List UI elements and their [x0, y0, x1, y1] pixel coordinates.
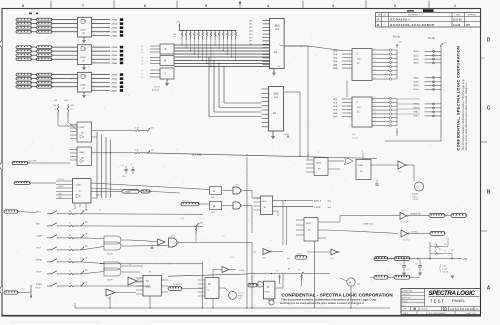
- svg-text:+MEA: +MEA: [111, 86, 117, 89]
- svg-text:Lo 12: Lo 12: [137, 279, 141, 281]
- svg-text:+MAA: +MAA: [111, 89, 117, 92]
- svg-text:MD2: MD2: [249, 27, 252, 29]
- svg-text:SPA e: SPA e: [414, 111, 419, 114]
- svg-text:36: 36: [439, 249, 441, 251]
- svg-text:and may not be used without th: and may not be used without the prior wr…: [465, 82, 468, 150]
- svg-text:+MAA: +MAA: [111, 34, 117, 37]
- svg-text:+MXA: +MXA: [111, 82, 117, 85]
- svg-text:12: 12: [93, 89, 95, 91]
- svg-text:C0: C0: [374, 49, 376, 51]
- svg-text:C5: C5: [374, 69, 376, 71]
- svg-text:FSCM NO.: FSCM NO.: [421, 308, 429, 310]
- svg-text:Gnd: Gnd: [284, 134, 287, 136]
- svg-text:PANEL: PANEL: [452, 299, 466, 303]
- svg-text:R4B: R4B: [71, 105, 74, 107]
- svg-text:x0: x0: [141, 46, 143, 48]
- svg-text:MGP: MGP: [371, 99, 375, 101]
- svg-text:C3: C3: [374, 109, 376, 111]
- svg-text:L2640: L2640: [76, 185, 83, 187]
- svg-text:REV: REV: [378, 14, 381, 16]
- svg-text:74S14: 74S14: [358, 165, 365, 167]
- svg-text:74...: 74...: [207, 290, 211, 292]
- svg-text:LS04: LS04: [398, 172, 402, 174]
- svg-text:x2: x2: [141, 63, 143, 65]
- svg-text:+MAA: +MAA: [111, 62, 117, 65]
- svg-text:RSTCLR: RSTCLR: [182, 200, 190, 202]
- svg-text:L 0 6 2 0 0 0 0 0 5: L 0 6 2 0 0 0 0 0 5: [450, 307, 474, 311]
- svg-text:+5: +5: [88, 39, 90, 41]
- svg-text:x0: x0: [141, 70, 143, 72]
- svg-text:MRLY: MRLY: [36, 212, 42, 214]
- svg-text:MXB e: MXB e: [414, 59, 420, 61]
- svg-text:MD7: MD7: [249, 44, 252, 46]
- svg-text:(42): (42): [253, 252, 256, 254]
- svg-text:124 LS14B: 124 LS14B: [400, 221, 408, 223]
- svg-text:D: D: [487, 38, 491, 44]
- svg-text:L2640: L2640: [80, 29, 86, 31]
- svg-text:STRIP: STRIP: [36, 272, 42, 274]
- svg-text:DESCRIPTION: DESCRIPTION: [408, 14, 418, 16]
- svg-text:2 1 4: 2 1 4: [402, 305, 406, 307]
- svg-text:RESET: RESET: [36, 260, 43, 262]
- svg-text:REV: REV: [476, 308, 479, 310]
- svg-text:LS04: LS04: [262, 257, 266, 259]
- svg-text:+WLA: +WLA: [111, 23, 117, 26]
- svg-text:4.7: 4.7: [407, 269, 409, 271]
- svg-text:5TRuE: 5TRuE: [35, 288, 41, 290]
- svg-text:+5: +5: [361, 151, 363, 153]
- svg-text:LS279: LS279: [107, 280, 114, 282]
- svg-text:Gnd: Gnd: [277, 66, 280, 68]
- svg-text:MOB e: MOB e: [414, 82, 420, 84]
- svg-text:WH: WH: [466, 24, 470, 27]
- svg-text:1 SCNF: 1 SCNF: [314, 207, 322, 209]
- svg-text:E C O # 0 0 2 —: E C O # 0 0 2 —: [391, 17, 411, 21]
- svg-text:MGB: MGB: [333, 116, 338, 118]
- svg-text:LS04: LS04: [330, 258, 334, 260]
- svg-text:MD0: MD0: [249, 20, 252, 22]
- svg-text:K1: K1: [198, 228, 200, 230]
- svg-text:C5: C5: [374, 116, 376, 118]
- svg-text:36: 36: [434, 251, 436, 253]
- svg-text:P6: P6: [451, 250, 453, 252]
- svg-text:x0: x0: [141, 57, 143, 59]
- svg-text:CHECKED: CHECKED: [402, 294, 411, 296]
- svg-text:C3: C3: [130, 164, 132, 166]
- svg-text:B: B: [377, 23, 379, 27]
- svg-text:.1: .1: [423, 269, 424, 271]
- svg-text:74S05: 74S05: [264, 292, 269, 294]
- svg-text:RSTA e: RSTA e: [414, 103, 420, 106]
- svg-text:RSTB e: RSTB e: [414, 108, 421, 110]
- svg-text:47µF: 47µF: [122, 176, 126, 178]
- svg-text:and may not be used without th: and may not be used without the prior wr…: [280, 301, 364, 305]
- svg-text:M: M: [349, 281, 351, 285]
- svg-text:C: C: [165, 73, 167, 76]
- svg-text:A RESETB: A RESETB: [411, 213, 421, 216]
- svg-text:L2640: L2640: [80, 57, 86, 59]
- svg-text:START: START: [238, 294, 243, 297]
- svg-text:(Cond34): (Cond34): [352, 138, 359, 140]
- svg-text:Ca: Ca: [400, 264, 402, 266]
- svg-text:A: A: [487, 286, 491, 292]
- svg-text:(xx): (xx): [287, 258, 290, 260]
- svg-text:x1: x1: [141, 60, 143, 62]
- svg-text:C4: C4: [374, 113, 376, 115]
- svg-text:2×4×8: 2×4×8: [154, 86, 161, 89]
- svg-text:MD6: MD6: [249, 41, 252, 43]
- svg-text:+MRA: +MRA: [111, 19, 117, 22]
- svg-text:+MEA: +MEA: [111, 31, 117, 34]
- svg-text:C4: C4: [374, 65, 376, 67]
- svg-text:Ca .1: Ca .1: [251, 277, 255, 279]
- svg-text:CYCLE: CYCLE: [238, 293, 245, 295]
- svg-text:28L6: 28L6: [274, 26, 280, 28]
- svg-text:CONFIDENTIAL, SPECTRA LOGIC C: CONFIDENTIAL, SPECTRA LOGIC CORPORATION: [456, 46, 461, 151]
- svg-text:C2: C2: [374, 57, 376, 59]
- svg-text:x2: x2: [141, 77, 143, 79]
- svg-text:BAR: BAR: [36, 223, 41, 226]
- svg-text:C7: C7: [374, 124, 376, 126]
- svg-text:BY: BY: [384, 14, 386, 16]
- svg-text:LS74: LS74: [316, 163, 322, 165]
- svg-text:L2640: L2640: [79, 127, 85, 129]
- svg-text:MSB e: MSB e: [414, 85, 420, 87]
- svg-text:+5V: +5V: [463, 259, 468, 261]
- svg-text:MD4: MD4: [249, 34, 252, 36]
- svg-text:SPB e: SPB e: [414, 116, 419, 118]
- svg-text:(pull up): (pull up): [152, 90, 160, 92]
- svg-text:L2640A: L2640A: [124, 191, 132, 194]
- svg-text:C: C: [487, 106, 491, 112]
- svg-text:WAB e: WAB e: [414, 76, 420, 79]
- svg-text:1A: 1A: [274, 51, 277, 54]
- svg-text:SY 42: SY 42: [230, 257, 234, 259]
- svg-text:+WLA: +WLA: [111, 50, 117, 53]
- svg-text:Pul Up: Pul Up: [393, 37, 401, 39]
- svg-text:2A: 2A: [273, 112, 276, 115]
- svg-text:Pul Up: Pul Up: [428, 38, 436, 40]
- svg-text:12: 12: [93, 62, 95, 64]
- svg-text:MD5: MD5: [249, 37, 252, 39]
- svg-text:e: e: [276, 303, 277, 305]
- svg-text:x1: x1: [141, 73, 143, 75]
- svg-text:C3: C3: [374, 61, 376, 63]
- svg-text:CLK (A3): CLK (A3): [192, 154, 202, 157]
- svg-text:L2640: L2640: [80, 84, 86, 86]
- svg-text:L6 1B: L6 1B: [180, 218, 184, 220]
- svg-text:SPARE: SPARE: [36, 283, 43, 286]
- svg-text:ISSUED: ISSUED: [402, 301, 409, 303]
- svg-text:C6: C6: [374, 120, 376, 122]
- svg-text:74S02: 74S02: [145, 287, 152, 289]
- svg-text:+(2): +(2): [98, 210, 101, 212]
- svg-text:A: A: [377, 17, 379, 21]
- svg-text:C1: C1: [374, 53, 376, 55]
- svg-text:+MRA: +MRA: [111, 46, 117, 49]
- svg-text:C7: C7: [374, 78, 376, 80]
- svg-text:MEB e: MEB e: [414, 63, 420, 65]
- svg-text:MGA: MGA: [333, 67, 338, 70]
- svg-text:WLB e: WLB e: [414, 55, 420, 57]
- svg-text:124 LS14B: 124 LS14B: [402, 239, 410, 241]
- svg-text:(A5): (A5): [328, 200, 332, 203]
- svg-text:C1: C1: [374, 101, 376, 103]
- svg-text:5TxT B: 5TxT B: [297, 254, 303, 256]
- svg-text:E C O # 0 2 0 B , F C C L E: E C O # 0 2 0 B , F C C L E A N U P: [391, 23, 435, 27]
- svg-text:D: D: [444, 308, 446, 311]
- svg-text:MD1: MD1: [249, 24, 252, 26]
- svg-text:I-CHIP: I-CHIP: [58, 186, 64, 188]
- svg-text:C8-17A: C8-17A: [443, 271, 450, 274]
- svg-text:This document contains confide: This document contains confidential info…: [281, 298, 377, 302]
- svg-text:+5: +5: [88, 67, 90, 69]
- svg-text:+MXA: +MXA: [111, 27, 117, 30]
- svg-text:LS05: LS05: [240, 270, 244, 272]
- svg-text:26L6: 26L6: [273, 94, 279, 96]
- svg-text:T E S T: T E S T: [430, 299, 444, 304]
- svg-text:R6: R6: [445, 244, 447, 246]
- svg-text:ALARM: ALARM: [412, 193, 418, 196]
- svg-text:MGP: MGP: [352, 134, 356, 136]
- svg-text:x2: x2: [141, 52, 143, 54]
- svg-text:+MRA: +MRA: [111, 74, 117, 77]
- svg-text:L2640: L2640: [79, 152, 85, 154]
- svg-text:BF: BF: [149, 272, 151, 274]
- svg-text:(A4): (A4): [328, 206, 332, 209]
- svg-text:+WLA: +WLA: [111, 78, 117, 81]
- svg-text:LS02: LS02: [107, 298, 111, 300]
- svg-text:+MEA: +MEA: [111, 58, 117, 61]
- svg-text:+5: +5: [88, 94, 90, 96]
- svg-text:Ca SY (42): Ca SY (42): [173, 284, 182, 286]
- svg-text:BUZZ: BUZZ: [414, 199, 418, 201]
- svg-text:C2: C2: [374, 105, 376, 107]
- svg-text:PIEZO: PIEZO: [413, 196, 419, 198]
- svg-text:MD3: MD3: [249, 31, 252, 33]
- svg-text:LS279: LS279: [107, 254, 114, 256]
- svg-text:C6: C6: [374, 74, 376, 76]
- svg-text:L1: L1: [356, 54, 358, 56]
- svg-text:P6: P6: [299, 270, 301, 272]
- svg-text:5-19-88: 5-19-88: [453, 18, 462, 21]
- svg-text:C0: C0: [374, 97, 376, 99]
- svg-text:A REL A: A REL A: [314, 200, 322, 203]
- svg-text:SIZE: SIZE: [403, 308, 406, 310]
- svg-text:MTB e: MTB e: [414, 89, 420, 91]
- svg-text:LM2: LM2: [211, 212, 215, 214]
- svg-text:12: 12: [93, 34, 95, 36]
- svg-text:P5: P5: [277, 271, 279, 273]
- svg-text:L1: L1: [356, 102, 358, 104]
- svg-text:SHEET 1 OF 1: SHEET 1 OF 1: [466, 313, 477, 315]
- svg-text:LM2: LM2: [211, 197, 215, 199]
- svg-text:LS74: LS74: [306, 223, 312, 225]
- svg-text:LS14: LS14: [401, 210, 405, 212]
- svg-text:x1: x1: [141, 49, 143, 51]
- svg-text:10 CHAR: 10 CHAR: [29, 160, 37, 163]
- svg-text:1 TEMP (14): 1 TEMP (14): [362, 224, 373, 226]
- svg-text:B: B: [487, 190, 491, 196]
- svg-text:+C2: +C2: [121, 165, 124, 167]
- svg-text:MRB: MRB: [333, 99, 338, 101]
- svg-text:+5V: +5V: [176, 21, 180, 23]
- svg-text:+MXA: +MXA: [111, 54, 117, 57]
- svg-text:CLAMP: CLAMP: [36, 235, 43, 238]
- svg-text:MLB e: MLB e: [414, 51, 419, 53]
- svg-text:TEST: TEST: [36, 248, 42, 250]
- svg-text:LS02: LS02: [235, 185, 239, 187]
- svg-text:This document contains confide: This document contains confidential info…: [462, 78, 465, 150]
